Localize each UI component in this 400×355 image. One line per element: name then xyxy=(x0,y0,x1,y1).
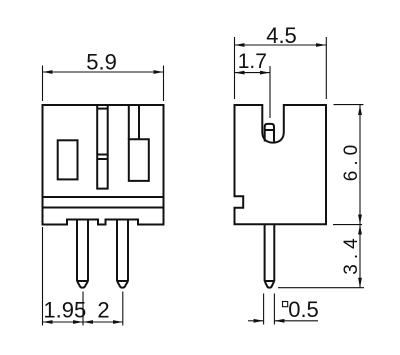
front view base line upper xyxy=(43,196,164,198)
dim line 5.9 xyxy=(43,71,164,73)
svg-text:6.0: 6.0 xyxy=(341,140,362,181)
side view body outline with top slot and left notch xyxy=(235,105,327,224)
dim line 0.5 left arrow xyxy=(248,320,264,322)
ext line 0.5 right xyxy=(273,294,275,325)
front view center channel xyxy=(97,105,108,189)
svg-text:4.5: 4.5 xyxy=(266,23,297,48)
dim line 1.95 xyxy=(43,321,84,323)
svg-text:3.4: 3.4 xyxy=(341,233,362,274)
ext line 0.5 left xyxy=(263,294,265,325)
ext line bottom body-left xyxy=(42,227,44,326)
ext line 4.5 left xyxy=(234,37,236,99)
front view base line lower xyxy=(43,207,164,209)
dim line 3.4 xyxy=(359,225,361,288)
ext line bottom pin2 center xyxy=(122,292,124,326)
svg-text:2: 2 xyxy=(97,298,109,323)
side view pin inside slot xyxy=(265,124,274,142)
front view left slot xyxy=(58,140,78,179)
front view pin 2 xyxy=(117,220,128,288)
dim line 4.5 xyxy=(235,44,327,46)
svg-text:1.7: 1.7 xyxy=(238,50,267,73)
svg-text:1.95: 1.95 xyxy=(43,298,86,323)
square symbol for 0.5 xyxy=(283,302,288,307)
front view center channel top cap xyxy=(97,108,108,110)
svg-text:5.9: 5.9 xyxy=(86,50,117,75)
ext line 3.4 bottom xyxy=(278,287,364,289)
dim line 0.5 right arrow xyxy=(274,320,318,322)
front view pin 1 xyxy=(77,220,88,288)
ext line 4.5 right xyxy=(325,37,327,99)
front view center channel divider xyxy=(97,155,108,160)
ext line 1.7 right xyxy=(269,66,271,118)
ext line 6.0 top xyxy=(334,104,364,106)
svg-text:0.5: 0.5 xyxy=(288,297,319,322)
dim line 6.0 xyxy=(359,105,361,225)
dim line 1.7 xyxy=(235,72,271,74)
ext line 6.0 bottom xyxy=(333,224,362,226)
ext line 5.9 right xyxy=(163,66,165,102)
front view body outline with stepped bottom xyxy=(43,105,164,225)
side view bottom pin xyxy=(265,224,275,287)
front view right rect xyxy=(129,139,149,181)
front view right strip xyxy=(129,105,139,139)
side view pin crimp line xyxy=(265,129,274,131)
dim line 2 xyxy=(83,321,123,323)
ext line bottom pin1 center xyxy=(82,292,84,326)
ext line 5.9 left xyxy=(42,66,44,102)
